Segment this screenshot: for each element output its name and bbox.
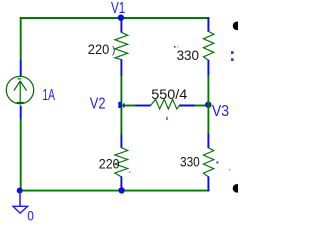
resistor R2 330 top pin upper (207, 18, 209, 32)
ground 0 stem (19, 191, 21, 207)
artifact faint specks above 330 label (174, 46, 176, 48)
artifact blue speck right of R4 (216, 161, 218, 163)
resistor R3 550/4 pin right (179, 105, 195, 107)
svg-text:V3: V3 (212, 103, 229, 120)
node V1 junction dot (118, 15, 124, 21)
svg-text:550/4: 550/4 (151, 87, 187, 103)
current source I1 pin bottom (20, 106, 22, 120)
svg-text:330: 330 (180, 154, 200, 170)
node V2 marker tick (123, 103, 125, 107)
wire left vertical lower (20, 119, 22, 191)
wire right vertical through V3 (207, 76, 209, 135)
resistor R2 330 zigzag (203, 31, 213, 60)
resistor R5 220 pin lower (120, 176, 122, 190)
wire left vertical upper (20, 17, 22, 61)
node V3 junction dot (205, 102, 211, 108)
wire middle horizontal V2 side (122, 105, 136, 107)
svg-text:V2: V2 (90, 95, 106, 112)
current source I1 plus sign (17, 102, 24, 104)
resistor R5 220 bottom pin upper (120, 134, 122, 148)
artifact blue colon upper dot (231, 51, 234, 54)
wire middle horizontal V3 side (195, 105, 209, 107)
node bottom middle junction dot (118, 187, 124, 193)
svg-text:1A: 1A (42, 87, 55, 104)
wire middle vertical V1-to-V2 (120, 76, 122, 135)
artifact faint blue speck right of R5 (129, 171, 131, 173)
svg-text:220: 220 (99, 157, 120, 173)
resistor R4 330 pin lower (207, 176, 209, 191)
wire bottom horizontal ground net (20, 190, 210, 192)
current source I1 minus dash (17, 78, 21, 80)
resistor R1 220 pin lower (120, 59, 122, 76)
artifact blue speck below 550/4 resistor (166, 117, 167, 120)
wire top horizontal V1 net (20, 17, 210, 19)
resistor R3 550/4 zigzag (151, 99, 180, 109)
svg-text:0: 0 (27, 208, 34, 223)
svg-text:330: 330 (177, 48, 200, 64)
artifact black bullet top right (233, 22, 242, 31)
resistor R1 220 top pin upper (120, 18, 122, 33)
node V2 marker square (118, 102, 121, 108)
ground 0 triangle (13, 206, 28, 213)
svg-text:V1: V1 (111, 0, 125, 17)
svg-text:220: 220 (88, 42, 110, 58)
resistor R4 330 zigzag (203, 148, 213, 177)
current source I1 arrow (14, 81, 27, 105)
resistor R4 330 bottom pin upper (207, 134, 209, 149)
svg-text:): ) (112, 45, 115, 56)
resistor R1 220 zigzag (115, 32, 128, 59)
node ground junction dot (17, 188, 23, 194)
resistor R2 330 pin lower (207, 60, 209, 76)
current source I1 body circle (6, 76, 33, 103)
artifact faint blue speck far right of R4 (229, 169, 231, 171)
artifact blue colon lower dot (231, 58, 234, 61)
resistor R5 220 zigzag (115, 148, 128, 177)
current source I1 pin top (20, 60, 22, 76)
artifact black bullet bottom right (233, 184, 242, 193)
resistor R3 550/4 pin left (135, 105, 151, 107)
